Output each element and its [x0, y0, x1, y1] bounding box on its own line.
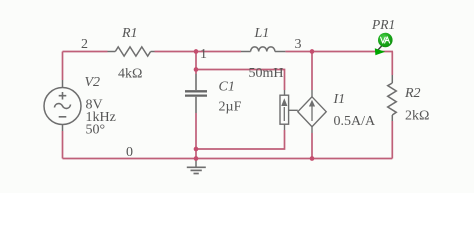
svg-text:50mH: 50mH — [249, 66, 284, 81]
wire: right vertical bottom (R2 to bottom wire) — [391, 121, 393, 159]
controlled source I1: diamond — [298, 90, 326, 133]
junction node 1 — [194, 49, 199, 54]
probe PR1 arrow — [375, 48, 385, 55]
capacitor C1 — [185, 74, 207, 113]
wire: sense rect bottom to lower branch — [196, 130, 285, 149]
controlled source I1: sense branch rectangle — [280, 90, 298, 130]
svg-text:50°: 50° — [86, 123, 106, 138]
svg-text:PR1: PR1 — [371, 17, 395, 32]
svg-text:L1: L1 — [254, 26, 270, 41]
wire: top left horizontal (node 2 to R1) — [63, 51, 108, 53]
svg-text:0.5A/A: 0.5A/A — [334, 114, 377, 129]
resistor R1 — [108, 47, 155, 56]
svg-text:2µF: 2µF — [219, 100, 242, 115]
diamond arrow head — [309, 100, 315, 107]
wire: right vertical top (corner down to R2) — [391, 52, 393, 76]
svg-text:2kΩ: 2kΩ — [405, 109, 429, 124]
svg-text:R2: R2 — [404, 86, 421, 101]
svg-text:1: 1 — [200, 47, 207, 62]
svg-text:C1: C1 — [219, 80, 235, 95]
wire: left vertical V2 bottom to bottom wire — [62, 131, 64, 159]
wire: node 3 to top right corner — [312, 51, 393, 53]
ground — [187, 161, 206, 174]
svg-text:R1: R1 — [121, 26, 138, 41]
wire: branch from node 1 dot to sense rect top — [196, 70, 285, 91]
wire: diamond I1 bottom to bottom wire — [311, 133, 313, 159]
sense arrow head — [281, 98, 287, 106]
junction diamond bottom — [310, 156, 315, 161]
inductor L1 — [241, 47, 285, 52]
junction node 1 branch — [194, 67, 199, 72]
svg-text:V2: V2 — [85, 75, 101, 90]
probe PR1 needle — [377, 45, 383, 52]
wire: R1 right to L1 left (through node 1) — [155, 51, 242, 53]
wire: left vertical from top corner to V2 top — [62, 52, 64, 81]
wire: L1 right to node 3 — [285, 51, 312, 53]
svg-text:2: 2 — [81, 37, 88, 52]
svg-text:I1: I1 — [333, 92, 346, 107]
wire: node 1 vertical down to C1 — [195, 52, 197, 75]
junction node 3 — [310, 49, 315, 54]
wire: C1 bottom down to ground junction — [195, 113, 197, 159]
junction lower branch — [194, 147, 199, 152]
wire: bottom horizontal (node 0) — [63, 158, 393, 160]
svg-text:0: 0 — [126, 145, 133, 160]
wire: node 3 down to diamond I1 — [311, 52, 313, 91]
probe PR1 VA text — [381, 37, 390, 43]
junction ground node — [194, 156, 199, 161]
svg-text:3: 3 — [295, 37, 302, 52]
resistor R2 — [388, 75, 397, 121]
svg-text:4kΩ: 4kΩ — [118, 67, 142, 82]
AC source V2 — [44, 80, 81, 131]
